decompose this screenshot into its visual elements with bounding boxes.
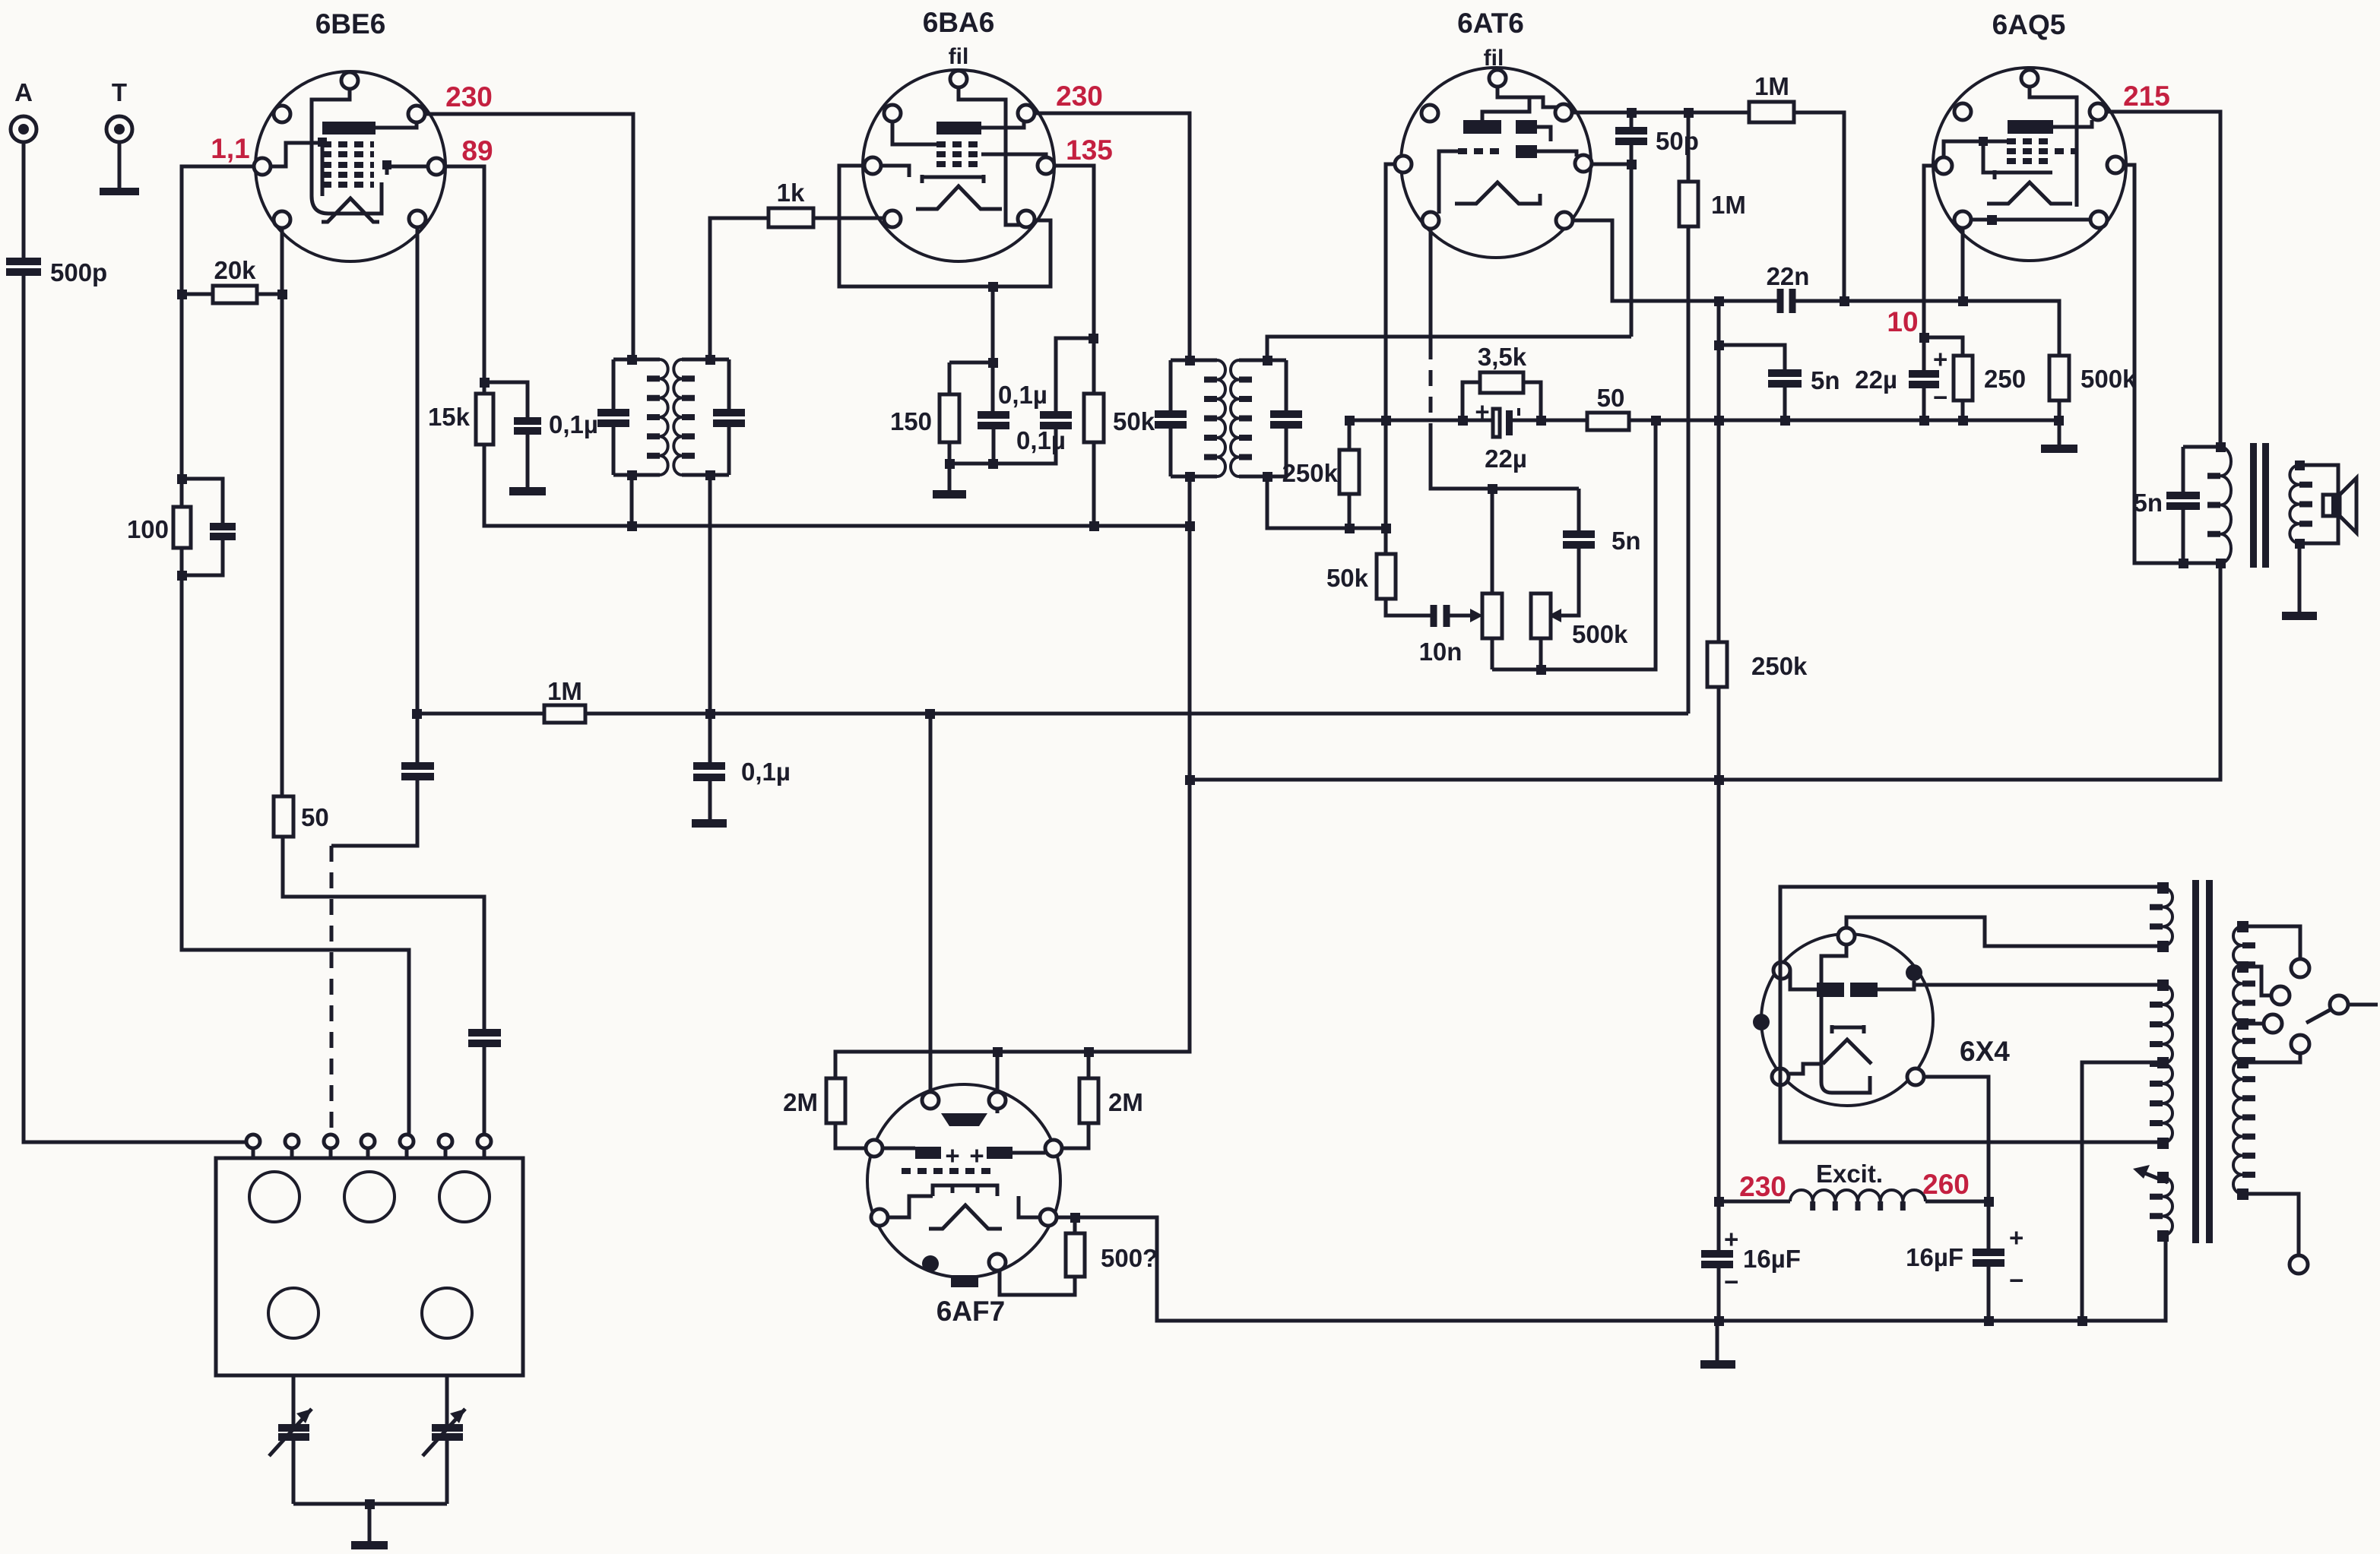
svg-text:+: + <box>1724 1225 1738 1253</box>
resistor 2M (left) <box>783 1078 866 1148</box>
capacitor 16uF (input filter) <box>1701 1225 1801 1296</box>
ground (tuning capacitors) <box>351 1541 388 1549</box>
node 22n line / 1M feed <box>1840 296 1849 306</box>
selector contact 2 <box>2271 986 2290 1005</box>
resistor 50k (detector load) <box>1326 554 1396 599</box>
capacitor 5n (AF filter) <box>1768 366 1840 394</box>
power transformer primary winding (filament, top) <box>2163 888 2172 946</box>
resistor 500k (grid return) <box>2049 356 2137 445</box>
capacitor 22u electrolytic (6AQ5 cathode) <box>1855 345 1947 411</box>
svg-text:260: 260 <box>1922 1169 1970 1200</box>
node 89/15k <box>480 378 490 388</box>
6AT6 interior: diode leads <box>1537 127 1577 157</box>
ground (AVC bypass) <box>692 819 727 828</box>
wire 6BE6 screen (89) to 15k and bypass <box>445 166 1190 526</box>
wire 6AQ5 screen 215 to output transformer top <box>2106 112 2220 447</box>
node SW / 22n line <box>1958 296 1968 306</box>
svg-text:50: 50 <box>301 803 329 831</box>
svg-text:89: 89 <box>461 135 493 166</box>
node 100 top <box>177 474 187 484</box>
6BE6 interior: grid dashed rows <box>322 144 374 185</box>
svg-text:5n: 5n <box>1811 366 1840 394</box>
wire T1 secondary bottom down to AVC line and bypass cap <box>708 475 712 819</box>
wire 6AQ5 grid pins tie (SW-SE) <box>1971 218 2090 222</box>
wire 6AT6 plate line (NE) with 1M to 6AQ5 grid line <box>1572 112 1844 301</box>
wire mains tap 4 to selector <box>2242 1053 2300 1062</box>
node T2 primary top <box>1185 356 1195 366</box>
svg-text:500k: 500k <box>2081 365 2137 393</box>
6BA6 pins <box>864 71 1054 227</box>
6BA6 interior: g2 row to E pin <box>981 154 1046 158</box>
6BA6 interior: anode lead <box>981 122 1024 128</box>
6AF7 interior: dashed row <box>902 1168 997 1174</box>
svg-text:100: 100 <box>127 515 169 543</box>
wire 6BE6 SW pin down to 50 resistor and padder cap to terminal 7 <box>282 228 484 1135</box>
6BA6 interior: cathode V <box>916 186 1002 209</box>
wire T2 primary bottom down to B+ distribution <box>835 476 1190 1078</box>
node pots rail / 553 rail <box>1651 416 1661 426</box>
tube 6AQ5 envelope <box>1933 68 2126 261</box>
arrow into tone pot <box>1548 609 1561 622</box>
6X4 interior: top pin lead <box>1821 945 1870 1093</box>
wire 100 parallel cap branch <box>182 479 223 575</box>
svg-text:+: + <box>969 1141 984 1169</box>
capacitor 22u electrolytic (cathode bypass) <box>1475 397 1527 473</box>
svg-text:Excit.: Excit. <box>1816 1160 1883 1188</box>
IF transformer T2 secondary tank <box>1231 360 1302 476</box>
node 50p bottom / diode <box>1627 160 1637 169</box>
node tuning ground <box>365 1499 375 1509</box>
node OT primary bottom <box>2216 559 2226 568</box>
node T1 primary top <box>627 355 637 365</box>
node cathode / 500 <box>1070 1213 1080 1223</box>
tube 6AT6 envelope <box>1401 68 1591 258</box>
ground (main bus) <box>1716 1321 1719 1360</box>
winding terminal dots <box>2157 882 2169 1242</box>
6BE6 interior: cathode V <box>322 198 379 222</box>
node tone pot bottom <box>1536 665 1546 675</box>
power transformer rectifier filament winding <box>2163 1177 2172 1236</box>
node 5n branch <box>1714 340 1724 350</box>
dashed wire to coil box terminal 3 <box>330 846 334 1135</box>
wire tuning caps common to ground <box>293 1504 447 1541</box>
svg-text:250: 250 <box>1984 365 2026 393</box>
power transformer HT winding <box>2163 985 2172 1143</box>
variable capacitor (osc tuning) <box>423 1409 465 1456</box>
svg-text:6AT6: 6AT6 <box>1457 8 1524 39</box>
svg-text:1M: 1M <box>1754 72 1789 100</box>
capacitor 500p <box>6 258 107 286</box>
capacitor 5n (tone, on AF line) <box>1561 489 1641 616</box>
terminal T <box>106 78 132 142</box>
wire T2 secondary top to detector diode line <box>1267 337 1631 360</box>
svg-text:500k: 500k <box>1572 620 1628 648</box>
ground (bias rail) <box>2041 445 2077 453</box>
node 50k bottom / rail <box>1089 521 1099 531</box>
6AQ5 interior: fil lead <box>2030 87 2077 207</box>
wire 6BA6 cathode loop around tube <box>839 166 1051 286</box>
node rail / IF2 left leg <box>1185 521 1195 531</box>
wire 6BA6 plate 230 line to IF2 primary top <box>1035 113 1190 360</box>
svg-text:0,1µ: 0,1µ <box>998 381 1047 409</box>
svg-text:+: + <box>1475 397 1489 426</box>
svg-text:250k: 250k <box>1282 459 1339 487</box>
node OT secondary bottom <box>2295 539 2305 549</box>
svg-text:135: 135 <box>1066 135 1113 166</box>
6AT6 interior: diode plates <box>1516 120 1537 134</box>
wire T2 secondary bottom to 250k and diode load <box>1267 476 1386 528</box>
6AF7 interior: grid bracket <box>933 1185 997 1196</box>
6BE6 interior: top pin lead and outer electrode hook <box>312 89 382 214</box>
node grid line / 553 rail <box>1381 416 1391 426</box>
wire mains tap 1 to selector <box>2242 926 2300 959</box>
wire network top rail <box>949 361 993 365</box>
node T2 secondary bottom <box>1263 472 1272 482</box>
6BE6 pins <box>254 72 445 228</box>
power transformer core <box>2192 880 2199 1243</box>
arrow (voltage adjust) on filament winding <box>2133 1165 2168 1182</box>
6AQ5 interior: grid dashed rows <box>2007 141 2078 161</box>
svg-text:−: − <box>1724 1268 1738 1296</box>
wire 6AF7 cathode to resistor 500 and bus <box>1057 1217 2166 1321</box>
tube 6BE6 envelope <box>255 71 445 261</box>
6AF7 pins <box>866 1092 1062 1271</box>
arrow into volume pot <box>1470 609 1483 622</box>
node grid tie <box>1987 215 1997 225</box>
6AQ5 interior: cathode bracket and V <box>1987 170 2072 204</box>
capacitor 22n (AF coupling) <box>1767 262 1810 313</box>
node 3,5k left <box>1458 416 1468 426</box>
node 150 bottom <box>945 459 955 469</box>
svg-text:−: − <box>1933 383 1947 411</box>
6AQ5 interior: plate bar <box>2008 120 2053 134</box>
wire 6AT6 triode grid (W pin) down to volume top <box>1386 164 1395 554</box>
ground (150 cathode) <box>933 490 966 498</box>
node bus / 16uF input <box>1714 1316 1724 1326</box>
resistor 250 (cathode bias) <box>1954 356 2026 420</box>
svg-text:215: 215 <box>2123 81 2170 112</box>
node T2 / y1026 <box>1185 775 1195 785</box>
6BA6 interior: g1 connector from NW pin <box>892 122 936 144</box>
tube 6AF7 envelope (magic eye) <box>867 1084 1060 1277</box>
node 260 / Excit right <box>1984 1197 1994 1207</box>
wire cathode down to RC network <box>991 286 995 413</box>
capacitor 0,1u (AVC bypass) <box>693 758 791 786</box>
svg-text:0,1µ: 0,1µ <box>549 410 598 438</box>
wire network bottom rail <box>949 424 1056 464</box>
6AT6 interior: triode plate bar <box>1463 120 1501 134</box>
capacitor padder (series to terminal 7) <box>468 1033 501 1043</box>
6BE6 interior: g1 connector from W pin <box>271 141 322 196</box>
resistor 50 (bias series) <box>1587 384 1629 430</box>
6AT6 pins <box>1395 70 1592 229</box>
svg-text:50k: 50k <box>1326 564 1369 592</box>
6AF7 interior: deflector leads <box>883 1148 1045 1153</box>
wire box bottom to left variable capacitor <box>292 1375 296 1504</box>
capacitor 5n (across OT primary) <box>2133 447 2220 563</box>
capacitor osc feedback <box>401 766 434 777</box>
wire 6BE6 plate 230 line to IF1 primary top <box>425 114 633 357</box>
svg-text:6AQ5: 6AQ5 <box>1992 9 2066 40</box>
resistor 100 with parallel capacitor <box>127 507 191 548</box>
6AF7 interior: cathode V <box>929 1205 1002 1229</box>
node cathode cap bottom <box>988 459 998 469</box>
6AF7 interior: target (trapezoid) <box>941 1113 987 1126</box>
svg-text:6X4: 6X4 <box>1960 1036 2010 1067</box>
wire 553 rail (cathode bias rail) <box>1349 419 2059 423</box>
6BE6 interior: anode bar <box>322 122 376 135</box>
6AF7 interior: deflector bars <box>915 1147 941 1159</box>
6AF7 base shield bar <box>951 1275 978 1287</box>
6AQ5 interior: plate lead <box>2053 120 2092 127</box>
wire 10n to volume pot wiper <box>1450 614 1470 618</box>
svg-text:2M: 2M <box>1108 1088 1143 1116</box>
6BA6 interior: cathode bracket <box>881 166 984 183</box>
coil box (band coil pack) <box>216 1158 523 1375</box>
node 1M vertical top <box>1684 108 1694 118</box>
node cathode / 22u <box>1919 333 1929 343</box>
node osc line / AVC <box>412 709 422 719</box>
node T1 secondary bottom <box>705 470 715 480</box>
node T2 primary bottom <box>1185 472 1195 482</box>
resistor 2M (right) <box>1062 1052 1143 1148</box>
node 250k bottom <box>1345 524 1355 533</box>
node T1 secondary top <box>705 355 715 365</box>
node diode load top <box>1381 524 1391 533</box>
6AQ5 interior: g1 connector from W pin <box>1944 141 2007 157</box>
6BE6 interior: g row to E pin <box>387 165 428 175</box>
svg-text:0,1µ: 0,1µ <box>741 758 791 786</box>
6BA6 interior: grid dashed rows <box>936 144 981 164</box>
node AVC / T1 secondary <box>705 709 715 719</box>
resistor 3,5k <box>1463 343 1541 420</box>
node 20k right <box>277 290 287 299</box>
wire B+ branch down through 250k to supply <box>1717 301 1721 1321</box>
output transformer primary coil <box>2220 447 2231 563</box>
node bus / center tap <box>2077 1316 2087 1326</box>
svg-text:6BA6: 6BA6 <box>923 7 995 38</box>
svg-text:230: 230 <box>1056 81 1103 112</box>
6BA6 interior: fil lead <box>959 87 1020 225</box>
6X4 interior: plate bars <box>1817 983 1844 997</box>
wire 6AT6 SW pin down (partly dashed) to AF line <box>1429 229 1433 343</box>
node AF line / volume top <box>1488 484 1497 494</box>
resistor 500? <box>1000 1217 1158 1295</box>
IF transformer T1 primary tank <box>597 359 668 475</box>
svg-text:5n: 5n <box>2133 489 2163 517</box>
wire AVC line <box>417 712 1688 716</box>
capacitor 10n (coupling) <box>1419 605 1463 666</box>
wire B+ 230 distribution line (y1026) <box>1190 563 2220 780</box>
node 100 bottom <box>177 571 187 581</box>
svg-text:6AF7: 6AF7 <box>936 1296 1005 1327</box>
wire 6BE6 osc grid (1,1) left and down to coil box terminal 5 <box>182 166 409 1135</box>
IF transformer T2 primary tank <box>1155 360 1225 476</box>
node 5n bottom / rail <box>1780 416 1790 426</box>
node 500k bottom / rail <box>2054 416 2064 426</box>
ground (T terminal) <box>100 188 139 195</box>
svg-text:50k: 50k <box>1113 407 1155 435</box>
wire T to ground <box>118 143 122 188</box>
svg-text:250k: 250k <box>1751 652 1808 680</box>
selector contact 1 <box>2291 959 2309 977</box>
6X4 interior: plate leads <box>1790 970 1914 989</box>
wire 6AT6 diode plate line (E pin) <box>1592 163 1631 166</box>
svg-text:16µF: 16µF <box>1906 1243 1963 1271</box>
resistor 1M (plate load coupling) <box>1749 72 1794 122</box>
resistor 20k <box>182 256 283 303</box>
node cathode loop <box>988 282 998 292</box>
node B+ branch / y1026 <box>1714 775 1724 785</box>
wire mains bottom to fuse contact <box>2242 1194 2299 1255</box>
wire T1 secondary top up to 1k <box>710 218 769 359</box>
ground (screen bypass) <box>509 487 546 495</box>
resistor 1k <box>769 179 884 227</box>
6AT6 interior: fil lead <box>1497 87 1557 107</box>
svg-text:6BE6: 6BE6 <box>315 8 386 40</box>
wire 50k bottom to 10n <box>1386 599 1431 616</box>
svg-text:500?: 500? <box>1101 1244 1158 1272</box>
node 22n line / B+ branch <box>1714 296 1724 306</box>
terminal A <box>11 78 36 142</box>
svg-text:1M: 1M <box>1711 191 1746 219</box>
node T2 secondary top <box>1263 356 1272 366</box>
speaker <box>2323 478 2356 533</box>
svg-text:fil: fil <box>1484 46 1504 71</box>
6X4 interior: cathode bracket and V <box>1789 1025 1871 1074</box>
node bus / 16uF output <box>1984 1316 1994 1326</box>
output transformer secondary coil <box>2290 465 2299 543</box>
6AT6 interior: grid connector <box>1439 151 1458 214</box>
node 50p top <box>1627 108 1637 118</box>
resistor 15k <box>428 394 493 445</box>
wire box bottom to right variable capacitor <box>445 1375 449 1504</box>
ground (speaker) <box>2282 612 2317 620</box>
coil box terminals <box>246 1135 491 1148</box>
node 3,5k right <box>1536 416 1546 426</box>
wire T1 primary bottom to AGC rail <box>630 475 634 526</box>
coil box inner coils (circles) <box>249 1172 490 1338</box>
node 135 branch <box>1089 334 1098 343</box>
output transformer core <box>2250 443 2257 568</box>
resistor 1M (grid leak, vertical) <box>1679 112 1746 714</box>
wire 50p junction down to detector line <box>1630 112 1634 337</box>
wire 6BA6 screen (135) right and down <box>1054 166 1094 413</box>
svg-text:+: + <box>1933 345 1947 373</box>
svg-text:10: 10 <box>1887 306 1918 337</box>
6AF7 interior: target lead <box>996 1109 1000 1113</box>
node network top <box>988 358 998 368</box>
wire 6X4 filament loop (box) <box>1780 887 2163 1142</box>
wire mains tap 2 to selector <box>2242 967 2271 995</box>
wire 6AF7 plate supply line (y1384) nodes <box>993 1047 1003 1057</box>
node T1 bottom / rail <box>627 521 637 531</box>
svg-text:0,1µ: 0,1µ <box>1016 426 1066 454</box>
potentiometer volume <box>1482 489 1502 669</box>
svg-text:2M: 2M <box>783 1088 818 1116</box>
capacitor 16uF (output filter) <box>1906 1223 2023 1294</box>
wire 6AQ5 cathode (W pin) down to bias network <box>1924 166 1963 420</box>
6AT6 interior: plate lead <box>1482 97 1529 120</box>
svg-text:1M: 1M <box>547 677 582 705</box>
tube 6X4 envelope <box>1761 934 1933 1106</box>
node Excit left / B+ <box>1714 1197 1724 1207</box>
node 22u bottom / rail <box>1919 416 1929 426</box>
6BE6 interior: anode lead to NE pin <box>376 122 417 128</box>
svg-text:A: A <box>14 78 33 106</box>
node rail / B+ branch <box>1714 416 1724 426</box>
resistor 1M (AVC decoupling) <box>544 677 585 723</box>
6AQ5 interior: g1 junction drop <box>1983 141 1995 172</box>
wire mains tap 3 to selector <box>2242 1022 2264 1026</box>
potentiometer tone 500k <box>1531 593 1628 669</box>
resistor 50 (osc grid leak) <box>274 796 329 837</box>
capacitor 50p <box>1615 127 1699 155</box>
node 20k left <box>177 290 187 299</box>
resistor 150 <box>890 362 959 490</box>
svg-text:3,5k: 3,5k <box>1478 343 1527 371</box>
6AQ5 pins <box>1935 70 2124 228</box>
6AF7 interior: pin links <box>888 1196 1040 1217</box>
svg-text:T: T <box>112 78 127 106</box>
selector contact 3 <box>2264 1014 2282 1033</box>
svg-text:150: 150 <box>890 407 932 435</box>
selector contact bottom <box>2290 1255 2308 1274</box>
wire top-right pin to supply line <box>996 1052 1000 1092</box>
wire 6X4 plate 2 to HT winding <box>1914 981 2163 985</box>
wire HT center tap to ground bus <box>2082 1062 2163 1321</box>
svg-text:50: 50 <box>1597 384 1625 412</box>
node 250k top <box>1345 416 1355 426</box>
svg-text:1,1: 1,1 <box>211 133 249 164</box>
node AVC / 6AF7 branch <box>925 709 935 719</box>
selector contact 4 <box>2291 1035 2309 1053</box>
svg-text:+: + <box>2009 1223 2023 1252</box>
svg-text:230: 230 <box>445 81 493 112</box>
mains switch arm <box>2306 995 2378 1023</box>
power transformer mains winding (zigzag) <box>2233 926 2242 1194</box>
svg-text:20k: 20k <box>214 256 256 284</box>
wire 6X4 plate 1 to HT winding top section <box>1846 917 2163 946</box>
svg-text:22n: 22n <box>1767 262 1810 290</box>
wire AVC down to 6AF7 grid <box>929 714 933 1092</box>
mains winding tap dots <box>2237 921 2248 1200</box>
node OT primary top <box>2216 442 2226 452</box>
wire 0,1u to ground <box>526 431 530 487</box>
svg-text:+: + <box>945 1141 959 1169</box>
svg-text:22µ: 22µ <box>1485 445 1527 473</box>
6AT6 interior: grid dashed row <box>1458 148 1502 154</box>
6AT6 interior: cathode V <box>1455 182 1540 204</box>
wire 6X4 cathode output (SE pin) to 260 node <box>1924 1077 1989 1321</box>
node OT secondary top <box>2295 461 2305 470</box>
tube 6BA6 envelope <box>863 70 1054 261</box>
wire 6BE6 SE pin down, osc feedback cap, to dashed link <box>331 227 417 846</box>
svg-text:fil: fil <box>949 44 969 69</box>
svg-text:22µ: 22µ <box>1855 366 1897 394</box>
IF transformer T1 secondary tank <box>673 359 745 475</box>
svg-text:1k: 1k <box>777 179 805 207</box>
wire 6AT6 SE pin to 6AQ5 grid line (22n line) <box>1573 220 2059 356</box>
capacitor 0,1u (screen bypass 6BA6) <box>1016 415 1072 454</box>
node OT bottom / 5n <box>2179 559 2188 568</box>
6X4 pins <box>1772 928 1924 1085</box>
wire branch to 5n <box>1719 345 1785 420</box>
svg-text:230: 230 <box>1739 1171 1786 1202</box>
6X4 key pins (filled) <box>1906 964 1922 981</box>
resistor 50k (screen dropper) <box>1084 394 1155 526</box>
svg-text:500p: 500p <box>50 258 107 286</box>
